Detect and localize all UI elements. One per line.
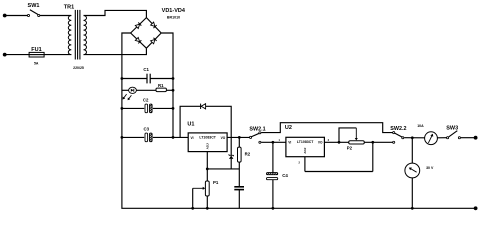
svg-text:LT1083CT: LT1083CT [297,140,314,144]
svg-text:ADJ: ADJ [303,147,307,153]
svg-text:BR1010: BR1010 [167,15,180,19]
svg-text:C1: C1 [143,67,149,72]
svg-text:SW3: SW3 [446,125,458,131]
svg-text:C4: C4 [282,173,288,178]
svg-text:LT1083CT: LT1083CT [199,136,216,140]
svg-text:30 V: 30 V [426,166,434,170]
svg-text:220/25: 220/25 [73,66,84,70]
svg-text:VO: VO [221,136,226,140]
svg-text:2: 2 [298,161,300,165]
svg-text:SW2.2: SW2.2 [390,126,406,132]
svg-text:SW2.1: SW2.1 [249,126,265,132]
svg-text:U1: U1 [187,122,194,128]
svg-text:5A: 5A [34,62,39,66]
svg-text:SW1: SW1 [28,3,40,9]
svg-text:C2: C2 [143,97,149,102]
svg-text:C3: C3 [144,126,150,131]
svg-text:VI: VI [190,136,193,140]
svg-text:U2: U2 [285,125,292,131]
svg-text:VD1-VD4: VD1-VD4 [162,8,186,14]
svg-text:VI: VI [288,140,291,144]
svg-text:R1: R1 [158,83,164,88]
svg-text:P2: P2 [347,146,353,151]
svg-text:1: 1 [278,138,280,142]
svg-text:P1: P1 [213,180,219,185]
svg-text:VO: VO [318,140,323,144]
svg-text:ADJ: ADJ [206,143,210,149]
svg-text:TR1: TR1 [64,5,74,11]
svg-text:10A: 10A [417,124,424,128]
svg-text:3: 3 [328,138,330,142]
svg-text:R2: R2 [245,151,251,156]
svg-text:FU1: FU1 [31,47,41,53]
